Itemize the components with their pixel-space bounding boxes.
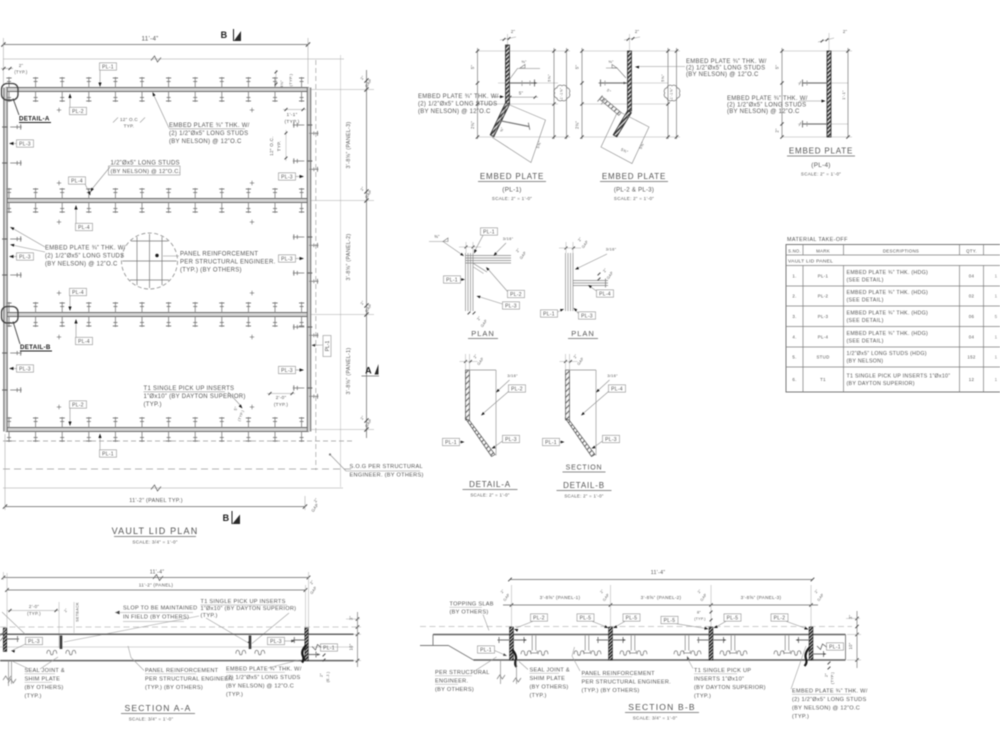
svg-text:(TYP.): (TYP.)	[226, 692, 243, 698]
svg-text:4¾”: 4¾”	[279, 80, 284, 88]
svg-text:SCALE: 2” = 1’-0”: SCALE: 2” = 1’-0”	[564, 494, 604, 499]
svg-text:EMBED PLATE ¾” THK. (HDG): EMBED PLATE ¾” THK. (HDG)	[847, 311, 929, 317]
svg-text:(TYP.): (TYP.)	[285, 119, 300, 125]
svg-text:SECTION: SECTION	[566, 465, 603, 472]
svg-text:SCALE: 2” = 1’-0”: SCALE: 2” = 1’-0”	[614, 196, 654, 201]
svg-text:PANEL REINFORCEMENT: PANEL REINFORCEMENT	[180, 252, 258, 258]
svg-text:(TYP.): (TYP.)	[831, 671, 835, 684]
svg-text:PLAN: PLAN	[571, 329, 595, 338]
svg-text:⅜”: ⅜”	[608, 59, 614, 64]
svg-text:12” O.C.: 12” O.C.	[269, 136, 274, 156]
svg-text:3/16”: 3/16”	[607, 373, 618, 378]
svg-text:DETAIL-B: DETAIL-B	[563, 481, 605, 490]
svg-text:(PL-1): (PL-1)	[502, 187, 521, 194]
svg-text:EMBED PLATE ¾” THK. (HDG): EMBED PLATE ¾” THK. (HDG)	[847, 290, 929, 296]
svg-text:⅜”: ⅜”	[434, 234, 440, 239]
svg-text:(BY OTHERS): (BY OTHERS)	[530, 685, 569, 691]
svg-text:(2) 1/2”Øx5” LONG STUDS: (2) 1/2”Øx5” LONG STUDS	[169, 131, 248, 137]
svg-text:5⅝”: 5⅝”	[547, 74, 552, 82]
svg-text:PL-3: PL-3	[19, 254, 31, 260]
svg-text:1’-1⅝”: 1’-1⅝”	[560, 87, 564, 99]
svg-text:(TYP.): (TYP.)	[530, 693, 547, 699]
svg-text:EMBED PLATE ¾” THK. W/: EMBED PLATE ¾” THK. W/	[418, 94, 499, 100]
svg-text:ENGINEER. (BY OTHERS): ENGINEER. (BY OTHERS)	[350, 473, 424, 479]
svg-text:2¾”: 2¾”	[575, 121, 580, 129]
svg-text:⅜”: ⅜”	[521, 59, 527, 64]
svg-text:(BY OTHERS): (BY OTHERS)	[435, 687, 474, 693]
svg-text:EMBED PLATE ¾” THK. W/: EMBED PLATE ¾” THK. W/	[686, 59, 767, 65]
svg-text:PL-1: PL-1	[545, 440, 557, 446]
svg-text:SHIM PLATE: SHIM PLATE	[25, 677, 61, 683]
svg-text:EMBED PLATE: EMBED PLATE	[480, 172, 544, 181]
svg-text:S.O.G PER STRUCTURAL: S.O.G PER STRUCTURAL	[350, 464, 423, 470]
svg-text:DETAIL-B: DETAIL-B	[20, 344, 51, 351]
svg-text:PL-5: PL-5	[664, 618, 676, 624]
svg-text:(E.J.): (E.J.)	[326, 671, 330, 682]
svg-text:PLAN: PLAN	[471, 329, 495, 338]
svg-text:(BY NELSON) @ 12”O.C: (BY NELSON) @ 12”O.C	[169, 139, 242, 145]
svg-text:SCALE: 3/4” = 1’-0”: SCALE: 3/4” = 1’-0”	[633, 716, 678, 721]
svg-text:PL-1: PL-1	[446, 277, 458, 283]
svg-text:PL-2: PL-2	[510, 292, 522, 298]
svg-text:SCALE: 3/4” = 1’-0”: SCALE: 3/4” = 1’-0”	[132, 540, 177, 545]
svg-text:2”: 2”	[635, 29, 640, 34]
svg-text:PANEL REINFORCEMENT: PANEL REINFORCEMENT	[145, 668, 219, 674]
svg-text:PL-4: PL-4	[71, 178, 83, 184]
svg-text:12: 12	[969, 377, 975, 382]
svg-text:(BY NELSON) @ 12”O.C: (BY NELSON) @ 12”O.C	[418, 109, 491, 115]
svg-text:EMBED PLATE: EMBED PLATE	[789, 147, 853, 156]
svg-text:(2) 1/2”Øx5” LONG STUDS: (2) 1/2”Øx5” LONG STUDS	[45, 254, 124, 260]
svg-text:PL-3: PL-3	[19, 141, 31, 147]
svg-text:3’-8⅝” (PANEL-2): 3’-8⅝” (PANEL-2)	[346, 234, 352, 281]
svg-text:3’-8⅝” (PANEL-1): 3’-8⅝” (PANEL-1)	[346, 348, 352, 395]
svg-text:12” O.C: 12” O.C	[120, 117, 138, 122]
svg-text:5.: 5.	[792, 355, 796, 360]
svg-text:3’-8⅝” (PANEL-3): 3’-8⅝” (PANEL-3)	[741, 595, 782, 600]
svg-text:PL-1: PL-1	[323, 645, 335, 651]
svg-text:(2) 1/2”Øx5” LONG STUDS: (2) 1/2”Øx5” LONG STUDS	[727, 103, 806, 109]
svg-text:(BY NELSON) @ 12”O.C: (BY NELSON) @ 12”O.C	[727, 109, 800, 115]
svg-text:INSERTS 1”Øx10”: INSERTS 1”Øx10”	[694, 677, 744, 683]
svg-text:SLOP TO BE MAINTAINED: SLOP TO BE MAINTAINED	[123, 606, 197, 612]
svg-text:PL-4: PL-4	[611, 386, 623, 392]
svg-text:VAULT LID PANEL: VAULT LID PANEL	[788, 259, 833, 265]
svg-text:MATERIAL TAKE-OFF: MATERIAL TAKE-OFF	[787, 237, 848, 243]
svg-text:3”: 3”	[349, 616, 354, 621]
svg-text:(SEE DETAIL): (SEE DETAIL)	[847, 297, 884, 303]
svg-text:(BY DAYTON SUPERIOR): (BY DAYTON SUPERIOR)	[694, 685, 766, 691]
svg-text:4.: 4.	[792, 335, 796, 340]
svg-text:DETAIL-A: DETAIL-A	[469, 480, 511, 489]
svg-text:(TYP.): (TYP.)	[274, 402, 289, 407]
svg-text:2”: 2”	[775, 128, 780, 133]
svg-text:PL-1: PL-1	[102, 451, 114, 457]
svg-text:(TYP.): (TYP.)	[25, 694, 42, 700]
svg-text:10”: 10”	[848, 642, 853, 649]
svg-text:A: A	[365, 366, 372, 376]
svg-text:1: 1	[995, 274, 998, 279]
svg-text:(TYP.): (TYP.)	[144, 402, 162, 408]
svg-text:(TYP.): (TYP.)	[792, 714, 809, 720]
svg-text:TYP.: TYP.	[124, 124, 135, 129]
svg-text:(SEE DETAIL): (SEE DETAIL)	[847, 277, 884, 283]
svg-text:PL-3: PL-3	[818, 314, 829, 319]
svg-text:1”Øx10” (BY DAYTON SUPERIOR): 1”Øx10” (BY DAYTON SUPERIOR)	[201, 606, 297, 612]
svg-text:3/16”: 3/16”	[606, 247, 617, 252]
svg-text:1’-1⅝”: 1’-1⅝”	[670, 87, 674, 99]
svg-text:11’-2” (PANEL): 11’-2” (PANEL)	[139, 583, 174, 588]
svg-text:PL-1: PL-1	[818, 274, 829, 279]
svg-text:PL-3: PL-3	[281, 174, 293, 180]
svg-text:2¾”: 2¾”	[470, 121, 475, 129]
svg-text:1: 1	[995, 335, 998, 340]
svg-text:5”: 5”	[519, 91, 524, 96]
svg-text:3’-8⅝” (PANEL-2): 3’-8⅝” (PANEL-2)	[641, 595, 682, 600]
svg-text:PANEL REINFORCEMENT: PANEL REINFORCEMENT	[582, 671, 656, 677]
svg-text:(TYP.): (TYP.)	[288, 73, 293, 86]
svg-text:(TYP.) (BY OTHERS): (TYP.) (BY OTHERS)	[582, 688, 640, 694]
svg-text:SEAL JOINT &: SEAL JOINT &	[25, 668, 65, 674]
svg-text:PL-5: PL-5	[580, 615, 592, 621]
svg-text:PL-2: PL-2	[774, 615, 786, 621]
svg-text:2”: 2”	[511, 29, 516, 34]
svg-text:1’-1”: 1’-1”	[841, 90, 846, 100]
svg-text:(2) 1/2”Øx5” LONG STUDS: (2) 1/2”Øx5” LONG STUDS	[792, 697, 867, 703]
svg-text:S.NO.: S.NO.	[788, 249, 801, 254]
svg-text:PL-3: PL-3	[281, 368, 293, 374]
svg-text:PER STRUCTURAL: PER STRUCTURAL	[435, 670, 490, 676]
svg-text:T1 SINGLE PICK UP INSERTS: T1 SINGLE PICK UP INSERTS	[201, 599, 286, 605]
svg-text:5”: 5”	[575, 65, 580, 70]
svg-text:PL-2: PL-2	[72, 402, 84, 408]
svg-text:PL-2: PL-2	[818, 294, 829, 299]
svg-text:(2) 1/2”Øx5” LONG STUDS: (2) 1/2”Øx5” LONG STUDS	[226, 675, 301, 681]
svg-text:1’-1”: 1’-1”	[287, 112, 298, 118]
svg-text:(TYP.): (TYP.)	[27, 611, 41, 616]
svg-text:PL-1: PL-1	[325, 341, 331, 352]
svg-text:3.: 3.	[792, 314, 796, 319]
svg-text:1: 1	[995, 355, 998, 360]
svg-text:EMBED PLATE ¾” THK. (HDG): EMBED PLATE ¾” THK. (HDG)	[847, 270, 929, 276]
svg-text:MARK: MARK	[816, 249, 830, 254]
svg-text:11’-2” (PANEL TYP.): 11’-2” (PANEL TYP.)	[129, 498, 183, 504]
svg-text:(TYP.): (TYP.)	[694, 617, 706, 621]
svg-text:(BY NELSON) @ 12”O.C: (BY NELSON) @ 12”O.C	[686, 72, 759, 78]
svg-text:2”: 2”	[19, 63, 24, 68]
svg-text:SEAL JOINT &: SEAL JOINT &	[530, 668, 570, 674]
svg-text:VAULT LID PLAN: VAULT LID PLAN	[112, 526, 199, 536]
svg-text:(SEE DETAIL): (SEE DETAIL)	[847, 338, 884, 344]
svg-text:(TYP.): (TYP.)	[694, 694, 711, 700]
svg-text:B: B	[221, 30, 228, 40]
svg-text:1: 1	[995, 294, 998, 299]
svg-text:PL-5: PL-5	[626, 615, 638, 621]
svg-text:1/2”Øx5” LONG STUDS (HDG): 1/2”Øx5” LONG STUDS (HDG)	[847, 351, 927, 357]
svg-text:8”: 8”	[697, 611, 701, 615]
svg-text:PL-1: PL-1	[543, 311, 555, 317]
svg-text:PER STRUCTURAL ENGINEER.: PER STRUCTURAL ENGINEER.	[145, 677, 235, 683]
svg-text:5”: 5”	[470, 65, 475, 70]
svg-text:EMBED PLATE ¾” THK. W/: EMBED PLATE ¾” THK. W/	[169, 123, 250, 129]
svg-text:(PL-2 & PL-3): (PL-2 & PL-3)	[614, 188, 654, 194]
svg-text:PER STRUCTURAL ENGINEER.: PER STRUCTURAL ENGINEER.	[180, 260, 276, 266]
svg-text:2.: 2.	[792, 294, 796, 299]
svg-text:PL-3: PL-3	[19, 366, 31, 372]
svg-text:10”: 10”	[349, 643, 354, 650]
svg-text:EMBED PLATE ¾” THK. W/: EMBED PLATE ¾” THK. W/	[45, 246, 126, 252]
svg-text:PL-2: PL-2	[533, 615, 545, 621]
svg-text:PL-4: PL-4	[78, 225, 90, 231]
svg-text:5: 5	[995, 314, 998, 319]
svg-text:2’-0”: 2’-0”	[276, 395, 287, 400]
svg-text:DETAIL-A: DETAIL-A	[19, 116, 50, 123]
svg-text:T1 SINGLE PICK UP: T1 SINGLE PICK UP	[694, 668, 751, 674]
svg-text:(TYP.) (BY OTHERS): (TYP.) (BY OTHERS)	[145, 685, 203, 691]
svg-text:SCALE: 2” = 1’-0”: SCALE: 2” = 1’-0”	[470, 493, 510, 498]
svg-text:(BY OTHERS): (BY OTHERS)	[25, 685, 64, 691]
svg-text:04: 04	[969, 274, 975, 279]
svg-text:11’-4”: 11’-4”	[141, 36, 158, 43]
svg-text:PL-1: PL-1	[480, 647, 492, 653]
svg-text:PL-1: PL-1	[829, 644, 841, 650]
svg-text:SCALE: 3/4” = 1’-0”: SCALE: 3/4” = 1’-0”	[129, 717, 174, 722]
svg-text:STUD: STUD	[816, 355, 829, 360]
svg-text:SCALE: 2” = 1’-0”: SCALE: 2” = 1’-0”	[492, 196, 532, 201]
svg-text:PL-3: PL-3	[505, 437, 517, 443]
svg-text:(BY DAYTON SUPERIOR): (BY DAYTON SUPERIOR)	[847, 381, 915, 387]
svg-text:PL-1: PL-1	[483, 229, 495, 235]
svg-text:EMBED PLATE ¾” THK. W/: EMBED PLATE ¾” THK. W/	[727, 96, 808, 102]
svg-text:(2) 1/2”Øx5” LONG STUDS: (2) 1/2”Øx5” LONG STUDS	[418, 102, 497, 108]
svg-text:PL-1: PL-1	[102, 64, 114, 70]
svg-text:PL-3: PL-3	[581, 313, 593, 319]
svg-text:SHIM PLATE: SHIM PLATE	[530, 676, 566, 682]
svg-text:PL-3: PL-3	[505, 303, 517, 309]
svg-text:PL-5: PL-5	[727, 615, 739, 621]
svg-text:1: 1	[995, 377, 998, 382]
svg-text:(BY NELSON) @ 12”O.C: (BY NELSON) @ 12”O.C	[792, 706, 860, 712]
svg-text:1.: 1.	[792, 274, 796, 279]
svg-text:PL-2: PL-2	[511, 386, 523, 392]
svg-text:B: B	[223, 513, 230, 523]
svg-text:2’-0”: 2’-0”	[29, 604, 39, 609]
svg-text:5⅝”: 5⅝”	[660, 74, 665, 82]
svg-text:06: 06	[969, 314, 975, 319]
svg-text:SECTION B-B: SECTION B-B	[628, 702, 696, 712]
svg-text:PL-4: PL-4	[72, 290, 84, 296]
svg-text:5”: 5”	[775, 65, 780, 70]
svg-text:6.: 6.	[792, 377, 796, 382]
svg-text:PL-4: PL-4	[599, 291, 611, 297]
svg-text:EMBED PLATE ¾” THK. W/: EMBED PLATE ¾” THK. W/	[792, 689, 868, 695]
svg-text:152: 152	[967, 355, 975, 360]
svg-text:(TYP.) (BY OTHERS): (TYP.) (BY OTHERS)	[180, 268, 242, 274]
svg-text:(TYP.): (TYP.)	[14, 70, 28, 75]
svg-text:11’-4”: 11’-4”	[150, 570, 165, 576]
svg-text:2”: 2”	[320, 673, 324, 677]
svg-text:1/2”Øx5” LONG STUDS: 1/2”Øx5” LONG STUDS	[111, 161, 180, 167]
svg-text:SETBACK: SETBACK	[76, 602, 80, 622]
svg-text:3’-8⅝” (PANEL-3): 3’-8⅝” (PANEL-3)	[346, 122, 352, 169]
svg-text:ENGINEER.: ENGINEER.	[435, 679, 468, 685]
svg-text:(BY OTHERS): (BY OTHERS)	[450, 610, 489, 616]
svg-text:TOPPING SLAB: TOPPING SLAB	[450, 602, 494, 608]
svg-text:(BY NELSON) @ 12”O.C: (BY NELSON) @ 12”O.C	[45, 262, 118, 268]
svg-text:PL-2: PL-2	[72, 109, 84, 115]
svg-text:SECTION A-A: SECTION A-A	[124, 703, 191, 713]
svg-text:SCALE: 2” = 1’-0”: SCALE: 2” = 1’-0”	[801, 172, 841, 177]
svg-text:3/16”: 3/16”	[503, 236, 514, 241]
svg-text:PL-4: PL-4	[818, 335, 829, 340]
svg-text:T1: T1	[820, 377, 826, 382]
svg-text:3/16”: 3/16”	[507, 373, 518, 378]
svg-text:PER STRUCTURAL ENGINEER.: PER STRUCTURAL ENGINEER.	[582, 680, 672, 686]
svg-text:11’-4”: 11’-4”	[651, 570, 666, 576]
svg-text:3’-8⅝” (PANEL-1): 3’-8⅝” (PANEL-1)	[540, 595, 581, 600]
svg-text:2”: 2”	[843, 29, 848, 34]
svg-text:02: 02	[969, 294, 975, 299]
svg-text:T1 SINGLE PICK UP INSERTS: T1 SINGLE PICK UP INSERTS	[144, 386, 235, 392]
svg-text:(2) 1/2”Øx5” LONG STUDS: (2) 1/2”Øx5” LONG STUDS	[686, 66, 765, 72]
svg-text:(BY NELSON) @ 12”O.C.: (BY NELSON) @ 12”O.C.	[111, 169, 181, 175]
svg-text:EMBED PLATE: EMBED PLATE	[602, 172, 666, 181]
svg-text:(BY NELSON) @ 12”O.C: (BY NELSON) @ 12”O.C	[226, 684, 294, 690]
svg-text:EMBED PLATE ¾” THK. (HDG): EMBED PLATE ¾” THK. (HDG)	[847, 331, 929, 337]
svg-text:2”: 2”	[825, 673, 829, 677]
svg-text:PL-1: PL-1	[445, 440, 457, 446]
svg-text:PL-3: PL-3	[281, 256, 293, 262]
svg-text:TYP.: TYP.	[277, 141, 282, 152]
svg-text:QTY.: QTY.	[966, 249, 977, 254]
svg-text:DESCRIPTIONS: DESCRIPTIONS	[883, 249, 919, 254]
svg-text:(TYP.): (TYP.)	[201, 613, 218, 619]
svg-text:PL-3: PL-3	[270, 639, 282, 645]
svg-text:PL-3: PL-3	[28, 639, 40, 645]
svg-text:PL-4: PL-4	[78, 339, 90, 345]
svg-text:(BY NELSON): (BY NELSON)	[847, 358, 884, 364]
svg-text:04: 04	[969, 335, 975, 340]
svg-text:T1 SINGLE PICK UP INSERTS 1”Øx: T1 SINGLE PICK UP INSERTS 1”Øx10”	[847, 374, 951, 380]
svg-text:PL-3: PL-3	[605, 437, 617, 443]
svg-text:(SEE DETAIL): (SEE DETAIL)	[847, 318, 884, 324]
svg-text:EMBED PLATE ¾” THK. W/: EMBED PLATE ¾” THK. W/	[226, 667, 302, 673]
svg-text:(PL-4): (PL-4)	[811, 162, 830, 169]
